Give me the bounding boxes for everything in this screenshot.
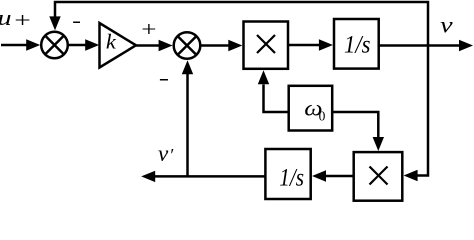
wire M2 to I2 (326, 175, 354, 178)
svg-text:+: + (141, 18, 156, 41)
wire u input (1, 44, 28, 47)
gain k (100, 23, 137, 68)
integrator I1 (1/s) (334, 19, 379, 69)
svg-text:k: k (106, 30, 116, 53)
wire S2 to M1 (201, 44, 231, 47)
wire v feedback down (416, 46, 428, 176)
svg-text:u: u (0, 6, 12, 30)
wire S1 to gain k (69, 44, 87, 47)
svg-text:0: 0 (319, 108, 326, 123)
wire top feedback (v to S1) (55, 2, 428, 46)
wire M1 to I1 (289, 44, 320, 47)
svg-text:-: - (159, 67, 169, 89)
wire I2 to v' output (155, 175, 265, 178)
svg-text:1/s: 1/s (279, 164, 304, 192)
wire w0 to M1 (264, 85, 289, 113)
block w0 (289, 86, 333, 131)
svg-text:+: + (14, 8, 31, 32)
svg-text:1/s: 1/s (344, 32, 370, 59)
svg-text:v: v (440, 12, 453, 38)
svg-text:-: - (72, 10, 81, 32)
multiplier M1 (244, 22, 289, 69)
svg-text:v′: v′ (158, 141, 174, 166)
wire v' branch up to S2 (186, 73, 189, 176)
summing junction S2 (174, 32, 201, 59)
multiplier M2 (354, 152, 403, 201)
integrator I2 (1/s bottom) (265, 149, 310, 199)
summing junction S1 (41, 32, 68, 59)
wire k to S2 (136, 44, 159, 47)
wire w0 to M2 (332, 112, 378, 138)
wire I1 to output v (380, 44, 460, 47)
